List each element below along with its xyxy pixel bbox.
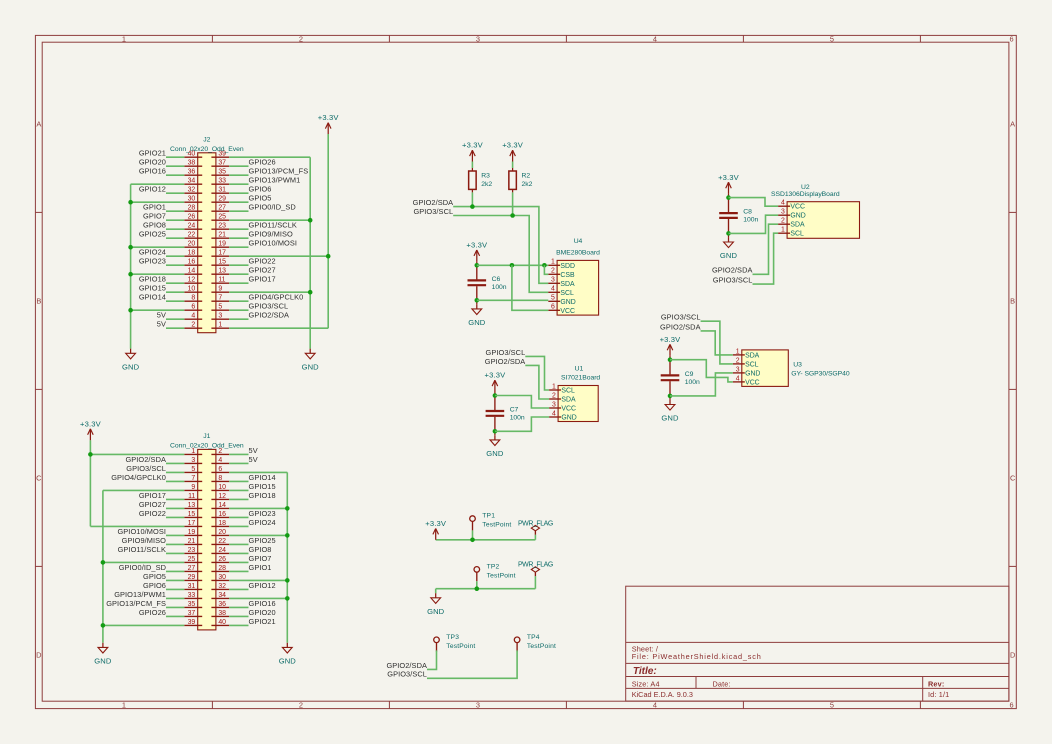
svg-text:SI7021Board: SI7021Board (561, 375, 600, 382)
svg-text:GPIO12: GPIO12 (249, 581, 276, 590)
svg-text:1: 1 (781, 227, 785, 234)
svg-text:39: 39 (188, 619, 196, 626)
svg-text:2k2: 2k2 (522, 181, 533, 188)
svg-text:Conn_02x20_Odd_Even: Conn_02x20_Odd_Even (170, 146, 244, 153)
svg-text:GPIO15: GPIO15 (249, 482, 276, 491)
svg-text:GPIO2/SDA: GPIO2/SDA (125, 455, 166, 464)
svg-text:17: 17 (218, 250, 226, 257)
svg-text:1: 1 (552, 383, 556, 390)
svg-text:9: 9 (191, 484, 195, 491)
svg-text:17: 17 (188, 520, 196, 527)
svg-text:30: 30 (188, 196, 196, 203)
svg-text:GPIO14: GPIO14 (249, 473, 276, 482)
svg-text:GPIO2/SDA: GPIO2/SDA (660, 322, 701, 331)
svg-text:GPIO26: GPIO26 (139, 608, 166, 617)
svg-text:GPIO23: GPIO23 (139, 257, 166, 266)
svg-text:C: C (36, 474, 42, 483)
svg-text:GND: GND (94, 656, 112, 665)
svg-text:Date:: Date: (713, 679, 731, 688)
svg-text:13: 13 (218, 268, 226, 275)
svg-text:GPIO27: GPIO27 (249, 266, 276, 275)
svg-text:7: 7 (218, 295, 222, 302)
svg-text:GPIO13/PWM1: GPIO13/PWM1 (249, 176, 301, 185)
svg-text:3: 3 (551, 277, 555, 284)
svg-text:GPIO9/MISO: GPIO9/MISO (249, 230, 294, 239)
svg-text:4: 4 (551, 286, 555, 293)
svg-text:GND: GND (661, 414, 679, 423)
svg-text:8: 8 (218, 475, 222, 482)
svg-text:SDA: SDA (745, 352, 760, 359)
svg-text:20: 20 (218, 529, 226, 536)
svg-text:C8: C8 (743, 209, 752, 216)
svg-text:4: 4 (736, 375, 740, 382)
svg-text:GPIO2/SDA: GPIO2/SDA (485, 357, 526, 366)
svg-text:TP3: TP3 (446, 634, 459, 641)
svg-text:GPIO21: GPIO21 (249, 617, 276, 626)
svg-text:+3.3V: +3.3V (462, 141, 484, 150)
svg-text:1: 1 (122, 701, 126, 710)
svg-text:GPIO3/SCL: GPIO3/SCL (387, 670, 427, 679)
svg-text:SDD: SDD (560, 263, 575, 270)
svg-text:SSD1306DisplayBoard: SSD1306DisplayBoard (771, 191, 840, 198)
svg-text:TestPoint: TestPoint (482, 522, 511, 529)
svg-text:3: 3 (476, 701, 480, 710)
svg-text:PWR_FLAG: PWR_FLAG (518, 562, 553, 569)
svg-text:6: 6 (218, 466, 222, 473)
svg-text:+3.3V: +3.3V (80, 419, 102, 428)
svg-text:1: 1 (736, 348, 740, 355)
svg-text:2: 2 (781, 218, 785, 225)
svg-text:5: 5 (218, 304, 222, 311)
svg-text:GPIO24: GPIO24 (139, 248, 166, 257)
svg-text:GPIO13/PWM1: GPIO13/PWM1 (114, 590, 166, 599)
svg-text:16: 16 (188, 259, 196, 266)
svg-text:GPIO17: GPIO17 (249, 275, 276, 284)
svg-text:A: A (36, 120, 41, 129)
svg-text:3: 3 (736, 366, 740, 373)
svg-text:21: 21 (218, 232, 226, 239)
svg-text:SCL: SCL (790, 231, 804, 238)
svg-text:GPIO11/SCLK: GPIO11/SCLK (118, 545, 166, 554)
svg-text:26: 26 (218, 556, 226, 563)
svg-text:R2: R2 (522, 172, 531, 179)
svg-text:GPIO18: GPIO18 (139, 275, 166, 284)
svg-text:J1: J1 (203, 433, 210, 440)
svg-text:6: 6 (1009, 701, 1013, 710)
svg-text:6: 6 (1009, 34, 1013, 43)
svg-text:2: 2 (299, 701, 303, 710)
svg-text:Id: 1/1: Id: 1/1 (928, 690, 949, 699)
svg-text:GPIO21: GPIO21 (139, 149, 166, 158)
svg-text:GND: GND (486, 449, 504, 458)
svg-text:19: 19 (188, 529, 196, 536)
svg-text:100n: 100n (510, 414, 525, 421)
svg-text:GPIO1: GPIO1 (143, 203, 166, 212)
svg-text:34: 34 (218, 592, 226, 599)
svg-text:VCC: VCC (561, 406, 576, 413)
svg-text:SCL: SCL (745, 361, 759, 368)
svg-text:U1: U1 (575, 366, 584, 373)
svg-text:2: 2 (191, 322, 195, 329)
svg-text:14: 14 (218, 502, 226, 509)
svg-text:24: 24 (218, 547, 226, 554)
svg-text:GPIO22: GPIO22 (139, 509, 166, 518)
svg-text:GND: GND (561, 415, 576, 422)
svg-text:B: B (1010, 297, 1015, 306)
svg-text:19: 19 (218, 241, 226, 248)
svg-text:3: 3 (218, 313, 222, 320)
svg-text:GPIO3/SCL: GPIO3/SCL (126, 464, 166, 473)
svg-text:GPIO0/ID_SD: GPIO0/ID_SD (119, 563, 166, 572)
svg-text:5: 5 (551, 295, 555, 302)
svg-text:+3.3V: +3.3V (466, 241, 488, 250)
svg-text:23: 23 (188, 547, 196, 554)
svg-text:GPIO0/ID_SD: GPIO0/ID_SD (249, 203, 296, 212)
svg-text:GPIO10/MOSI: GPIO10/MOSI (117, 527, 166, 536)
svg-text:GPIO6: GPIO6 (249, 185, 272, 194)
svg-text:Rev:: Rev: (928, 679, 944, 688)
svg-text:27: 27 (188, 565, 196, 572)
svg-text:7: 7 (191, 475, 195, 482)
svg-text:2: 2 (299, 34, 303, 43)
svg-text:15: 15 (218, 259, 226, 266)
svg-text:29: 29 (218, 196, 226, 203)
svg-text:GPIO3/SCL: GPIO3/SCL (661, 313, 701, 322)
svg-text:TestPoint: TestPoint (527, 643, 556, 650)
svg-text:GPIO3/SCL: GPIO3/SCL (486, 348, 526, 357)
svg-text:GPIO7: GPIO7 (249, 554, 272, 563)
svg-text:GPIO25: GPIO25 (139, 230, 166, 239)
svg-text:12: 12 (218, 493, 226, 500)
svg-text:3: 3 (191, 457, 195, 464)
svg-text:GPIO3/SCL: GPIO3/SCL (413, 207, 453, 216)
svg-text:GND: GND (468, 318, 486, 327)
svg-text:35: 35 (188, 601, 196, 608)
svg-text:Size: A4: Size: A4 (632, 679, 660, 688)
svg-text:+3.3V: +3.3V (660, 335, 682, 344)
svg-text:11: 11 (218, 277, 225, 284)
svg-text:GPIO24: GPIO24 (249, 518, 276, 527)
svg-text:GPIO13/PCM_FS: GPIO13/PCM_FS (106, 599, 166, 608)
svg-text:+3.3V: +3.3V (484, 371, 506, 380)
svg-text:GPIO17: GPIO17 (139, 491, 166, 500)
svg-text:22: 22 (188, 232, 196, 239)
svg-text:GPIO5: GPIO5 (143, 572, 166, 581)
svg-text:GPIO2/SDA: GPIO2/SDA (386, 661, 427, 670)
svg-text:D: D (36, 651, 41, 660)
svg-text:VCC: VCC (790, 204, 805, 211)
svg-text:GPIO14: GPIO14 (139, 293, 166, 302)
svg-text:Conn_02x20_Odd_Even: Conn_02x20_Odd_Even (170, 442, 244, 449)
svg-text:D: D (1010, 651, 1015, 660)
svg-text:28: 28 (188, 205, 196, 212)
svg-text:4: 4 (781, 200, 785, 207)
svg-text:4: 4 (191, 313, 195, 320)
svg-text:38: 38 (188, 160, 196, 167)
svg-text:2: 2 (551, 268, 555, 275)
svg-text:36: 36 (218, 601, 226, 608)
svg-text:GND: GND (427, 607, 445, 616)
svg-text:Title:: Title: (633, 666, 657, 677)
svg-text:5V: 5V (157, 320, 166, 329)
svg-text:32: 32 (218, 583, 226, 590)
svg-text:SDA: SDA (560, 281, 575, 288)
svg-text:GPIO27: GPIO27 (139, 500, 166, 509)
svg-text:3: 3 (476, 34, 480, 43)
svg-text:3: 3 (781, 209, 785, 216)
svg-text:GPIO25: GPIO25 (249, 536, 276, 545)
svg-text:3: 3 (552, 401, 556, 408)
svg-text:GPIO26: GPIO26 (249, 158, 276, 167)
svg-text:A: A (1010, 120, 1015, 129)
svg-text:10: 10 (218, 484, 226, 491)
svg-text:5: 5 (830, 34, 834, 43)
svg-text:GPIO7: GPIO7 (143, 212, 166, 221)
svg-text:SDA: SDA (790, 222, 805, 229)
svg-text:35: 35 (218, 169, 226, 176)
svg-text:24: 24 (188, 223, 196, 230)
svg-text:GND: GND (560, 299, 575, 306)
svg-text:File: PiWeatherShield.kicad_sc: File: PiWeatherShield.kicad_sch (632, 652, 762, 661)
svg-text:+3.3V: +3.3V (318, 113, 340, 122)
svg-text:U3: U3 (793, 361, 802, 368)
svg-text:25: 25 (188, 556, 196, 563)
svg-text:6: 6 (191, 304, 195, 311)
svg-text:GPIO3/SCL: GPIO3/SCL (713, 276, 753, 285)
svg-text:37: 37 (218, 160, 226, 167)
svg-text:GND: GND (302, 362, 320, 371)
svg-text:32: 32 (188, 187, 196, 194)
svg-text:31: 31 (218, 187, 226, 194)
svg-text:+3.3V: +3.3V (718, 173, 740, 182)
svg-text:GPIO2/SDA: GPIO2/SDA (413, 198, 454, 207)
svg-text:22: 22 (218, 538, 226, 545)
svg-text:40: 40 (218, 619, 226, 626)
svg-text:11: 11 (188, 493, 195, 500)
svg-text:GPIO9/MISO: GPIO9/MISO (122, 536, 167, 545)
svg-text:GPIO6: GPIO6 (143, 581, 166, 590)
svg-text:GPIO2/SDA: GPIO2/SDA (249, 311, 290, 320)
svg-text:4: 4 (653, 34, 657, 43)
svg-text:GPIO12: GPIO12 (139, 185, 166, 194)
svg-text:100n: 100n (492, 284, 507, 291)
svg-text:2k2: 2k2 (481, 181, 492, 188)
svg-text:GPIO22: GPIO22 (249, 257, 276, 266)
svg-text:GPIO5: GPIO5 (249, 194, 272, 203)
svg-text:C: C (1010, 474, 1016, 483)
svg-text:GPIO18: GPIO18 (249, 491, 276, 500)
svg-text:BME280Board: BME280Board (556, 249, 600, 256)
svg-text:20: 20 (188, 241, 196, 248)
svg-text:27: 27 (218, 205, 226, 212)
svg-text:28: 28 (218, 565, 226, 572)
svg-text:TP1: TP1 (482, 513, 495, 520)
svg-text:GPIO15: GPIO15 (139, 284, 166, 293)
svg-text:GPIO23: GPIO23 (249, 509, 276, 518)
svg-text:100n: 100n (685, 379, 700, 386)
svg-text:GPIO20: GPIO20 (139, 158, 166, 167)
svg-text:5V: 5V (249, 455, 258, 464)
svg-text:33: 33 (218, 178, 226, 185)
svg-text:GPIO13/PCM_FS: GPIO13/PCM_FS (249, 167, 309, 176)
svg-text:C7: C7 (510, 406, 519, 413)
svg-text:TestPoint: TestPoint (487, 572, 516, 579)
svg-text:21: 21 (188, 538, 196, 545)
svg-text:12: 12 (188, 277, 196, 284)
svg-text:2: 2 (736, 357, 740, 364)
svg-text:GND: GND (790, 213, 805, 220)
svg-text:1: 1 (122, 34, 126, 43)
svg-text:+3.3V: +3.3V (502, 141, 524, 150)
svg-text:29: 29 (188, 574, 196, 581)
svg-text:C6: C6 (492, 276, 501, 283)
svg-text:GND: GND (122, 362, 140, 371)
svg-text:SCL: SCL (560, 290, 574, 297)
svg-text:4: 4 (218, 457, 222, 464)
svg-text:23: 23 (218, 223, 226, 230)
svg-text:GPIO16: GPIO16 (249, 599, 276, 608)
svg-text:1: 1 (551, 259, 555, 266)
svg-text:GPIO11/SCLK: GPIO11/SCLK (249, 221, 297, 230)
svg-text:4: 4 (552, 410, 556, 417)
svg-text:+3.3V: +3.3V (425, 519, 447, 528)
svg-text:GY- SGP30/SGP40: GY- SGP30/SGP40 (791, 370, 850, 377)
svg-text:J2: J2 (203, 137, 210, 144)
svg-text:GPIO4/GPCLK0: GPIO4/GPCLK0 (111, 473, 166, 482)
svg-text:30: 30 (218, 574, 226, 581)
svg-text:18: 18 (218, 520, 226, 527)
svg-text:B: B (36, 297, 41, 306)
svg-text:VCC: VCC (560, 308, 575, 315)
svg-text:25: 25 (218, 214, 226, 221)
svg-text:GND: GND (720, 251, 738, 260)
svg-text:100n: 100n (743, 217, 758, 224)
svg-text:37: 37 (188, 610, 196, 617)
svg-text:C9: C9 (685, 371, 694, 378)
svg-text:14: 14 (188, 268, 196, 275)
svg-text:31: 31 (188, 583, 196, 590)
svg-text:TP2: TP2 (487, 563, 500, 570)
svg-text:GPIO3/SCL: GPIO3/SCL (249, 302, 289, 311)
svg-text:GPIO16: GPIO16 (139, 167, 166, 176)
svg-text:13: 13 (188, 502, 196, 509)
svg-text:33: 33 (188, 592, 196, 599)
svg-text:GPIO4/GPCLK0: GPIO4/GPCLK0 (249, 293, 304, 302)
svg-text:GPIO8: GPIO8 (249, 545, 272, 554)
svg-text:GND: GND (279, 656, 297, 665)
svg-text:26: 26 (188, 214, 196, 221)
svg-text:1: 1 (218, 322, 222, 329)
svg-text:TP4: TP4 (527, 634, 540, 641)
svg-text:16: 16 (218, 511, 226, 518)
svg-text:10: 10 (188, 286, 196, 293)
svg-text:CSB: CSB (560, 272, 575, 279)
svg-text:5: 5 (830, 701, 834, 710)
svg-text:TestPoint: TestPoint (446, 643, 475, 650)
svg-text:34: 34 (188, 178, 196, 185)
svg-text:PWR_FLAG: PWR_FLAG (518, 520, 553, 527)
svg-text:36: 36 (188, 169, 196, 176)
svg-text:VCC: VCC (745, 379, 760, 386)
svg-text:GPIO2/SDA: GPIO2/SDA (712, 266, 753, 275)
svg-text:GPIO8: GPIO8 (143, 221, 166, 230)
svg-text:GPIO10/MOSI: GPIO10/MOSI (249, 239, 298, 248)
svg-text:4: 4 (653, 701, 657, 710)
svg-text:5V: 5V (157, 311, 166, 320)
svg-text:GPIO1: GPIO1 (249, 563, 272, 572)
svg-text:5V: 5V (249, 446, 258, 455)
svg-text:2: 2 (552, 392, 556, 399)
svg-text:GND: GND (745, 370, 760, 377)
svg-text:SDA: SDA (561, 397, 576, 404)
svg-text:U4: U4 (574, 238, 583, 245)
svg-text:15: 15 (188, 511, 196, 518)
svg-text:GPIO20: GPIO20 (249, 608, 276, 617)
svg-text:8: 8 (191, 295, 195, 302)
svg-text:5: 5 (191, 466, 195, 473)
svg-text:KiCad E.D.A. 9.0.3: KiCad E.D.A. 9.0.3 (632, 690, 693, 699)
svg-text:18: 18 (188, 250, 196, 257)
svg-text:9: 9 (218, 286, 222, 293)
svg-text:R3: R3 (481, 172, 490, 179)
svg-text:38: 38 (218, 610, 226, 617)
svg-text:SCL: SCL (561, 388, 575, 395)
svg-text:6: 6 (551, 304, 555, 311)
